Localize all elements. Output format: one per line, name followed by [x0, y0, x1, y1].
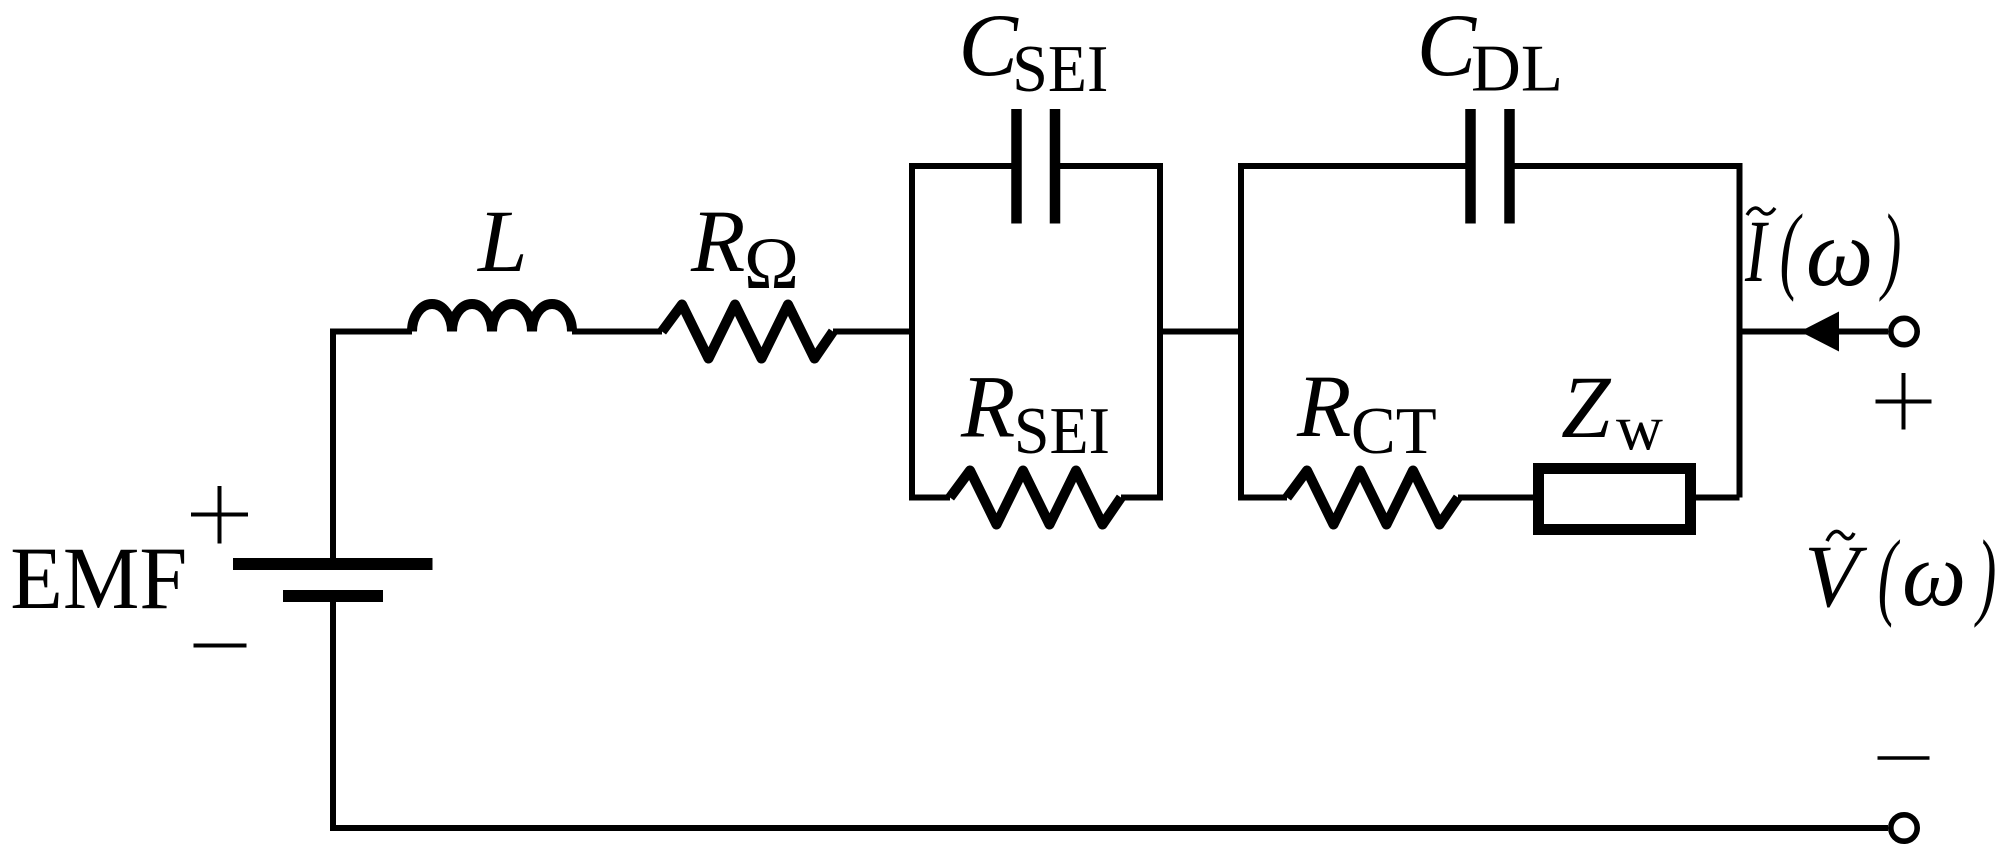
svg-text:SEI: SEI: [1014, 394, 1110, 468]
terminal positive (open circle): [1891, 318, 1917, 344]
SEI box right edge: [1157, 166, 1163, 498]
label V(omega) tilde: [1827, 531, 1854, 541]
svg-text:SEI: SEI: [1012, 32, 1108, 106]
DL box top edge left segment: [1238, 163, 1466, 169]
battery plus sign: [191, 486, 248, 544]
wire RΩ to SEI box: [833, 329, 912, 335]
svg-text:R: R: [690, 193, 745, 291]
svg-text:EMF: EMF: [10, 530, 187, 628]
DL box bottom edge left segment: [1238, 495, 1287, 501]
svg-text:): ): [1974, 522, 1996, 629]
svg-text:Ω: Ω: [744, 223, 799, 305]
resistor R_CT: [1287, 471, 1458, 525]
minus sign at negative terminal: [1878, 756, 1930, 760]
resistor R_SEI: [950, 471, 1121, 525]
DL box right edge: [1737, 166, 1743, 498]
SEI box top edge left segment: [909, 163, 1012, 169]
battery EMF positive plate: [233, 558, 433, 570]
svg-text:C: C: [959, 0, 1020, 95]
svg-text:w: w: [1616, 393, 1663, 465]
svg-text:C: C: [1417, 0, 1478, 95]
svg-text:V: V: [1804, 528, 1867, 626]
capacitor C_DL: [1465, 109, 1476, 224]
wire from battery negative down and along the bottom to negative terminal: [333, 600, 1888, 828]
wire R_CT to Z_W: [1458, 495, 1538, 501]
wire Z_W to DL box right edge: [1693, 495, 1740, 501]
battery EMF negative plate: [283, 590, 383, 602]
plus sign at positive terminal: [1876, 373, 1932, 430]
DL box left edge: [1238, 166, 1244, 498]
DL box top edge right segment: [1514, 163, 1743, 169]
svg-text:): ): [1879, 196, 1901, 303]
SEI box bottom edge right segment: [1121, 495, 1163, 501]
SEI box top edge right segment: [1059, 163, 1163, 169]
label I(omega) tilde: [1747, 208, 1775, 215]
resistor RΩ: [662, 305, 833, 359]
SEI box left edge: [909, 166, 915, 498]
svg-text:Z: Z: [1561, 359, 1612, 457]
svg-text:ω: ω: [1806, 199, 1874, 306]
current arrow: [1800, 312, 1839, 352]
svg-text:(: (: [1780, 195, 1803, 302]
svg-text:ω: ω: [1902, 524, 1966, 625]
inductor L: [412, 304, 572, 332]
svg-text:(: (: [1878, 522, 1901, 629]
svg-text:DL: DL: [1471, 32, 1563, 106]
warburg impedance Z_W box: [1539, 469, 1691, 530]
wire from battery positive up and right to inductor: [333, 332, 412, 561]
svg-text:R: R: [960, 359, 1015, 457]
wire between inductor and resistor RΩ: [572, 329, 662, 335]
output wire to positive terminal: [1740, 329, 1889, 335]
svg-text:I: I: [1744, 202, 1769, 301]
svg-text:L: L: [476, 193, 528, 291]
capacitor C_SEI: [1011, 109, 1022, 224]
terminal negative (open circle): [1891, 815, 1917, 841]
SEI box bottom edge left segment: [909, 495, 950, 501]
svg-text:R: R: [1296, 358, 1351, 456]
svg-text:CT: CT: [1351, 394, 1437, 468]
battery minus sign: [194, 644, 247, 648]
wire SEI box to DL box: [1160, 329, 1241, 335]
